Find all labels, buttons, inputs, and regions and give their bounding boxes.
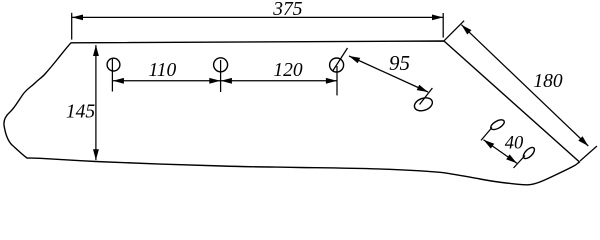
svg-text:145: 145	[66, 102, 96, 123]
svg-text:110: 110	[148, 60, 176, 81]
svg-text:40: 40	[505, 134, 524, 154]
svg-text:375: 375	[272, 0, 303, 20]
svg-text:120: 120	[273, 60, 303, 81]
svg-text:95: 95	[389, 51, 410, 75]
svg-text:180: 180	[533, 71, 563, 92]
